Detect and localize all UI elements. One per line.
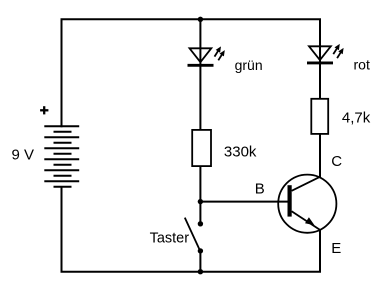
LED D2 red triangle	[309, 46, 331, 60]
LED D1 cathode bar	[188, 64, 214, 67]
node switch bottom contact	[198, 248, 203, 253]
wire base node to transistor base	[200, 201, 288, 203]
LED D2 light arrow 1	[333, 44, 340, 54]
svg-text:9 V: 9 V	[12, 147, 35, 164]
transistor Q1 base bar	[288, 185, 292, 216]
LED D1 green triangle	[190, 48, 212, 62]
battery BAT1 9V plates	[44, 126, 79, 187]
wire battery plus up, top rail, down through red LED to resistor R2	[62, 19, 321, 127]
svg-text:B: B	[255, 180, 265, 197]
node junction bottom rail	[198, 269, 203, 274]
transistor Q1 collector lead	[292, 177, 320, 191]
LED D2 light arrow 2	[337, 48, 344, 58]
wire green branch from top junction through LED D1 to resistor R1	[199, 19, 201, 130]
svg-text:Taster: Taster	[150, 231, 190, 247]
transistor Q1 circle	[278, 175, 336, 233]
switch S1 Taster lever	[185, 218, 199, 249]
wire resistor R2 to transistor collector	[319, 134, 321, 178]
label battery plus sign	[40, 106, 48, 114]
node junction top rail to green LED branch	[198, 17, 203, 22]
svg-text:4,7k: 4,7k	[342, 110, 371, 127]
svg-text:E: E	[331, 240, 341, 257]
svg-text:330k: 330k	[224, 143, 257, 160]
wire battery minus down, bottom rail, up to transistor emitter	[62, 186, 321, 272]
LED D1 light arrow 2	[218, 50, 225, 60]
resistor R1 330k body	[192, 130, 211, 166]
LED D1 light arrow 1	[215, 46, 222, 56]
wire switch bottom contact to bottom rail	[199, 251, 201, 272]
transistor Q1 emitter arrow head	[305, 217, 315, 225]
svg-text:C: C	[331, 153, 342, 170]
resistor R2 4,7k body	[311, 99, 328, 134]
node switch top contact	[198, 221, 203, 226]
node junction base wire	[198, 199, 203, 204]
svg-text:rot: rot	[354, 57, 370, 73]
LED D2 cathode bar	[307, 61, 333, 64]
svg-text:grün: grün	[235, 57, 263, 73]
transistor Q1 emitter lead	[292, 211, 320, 230]
wire resistor R1 to switch top contact	[199, 166, 201, 225]
